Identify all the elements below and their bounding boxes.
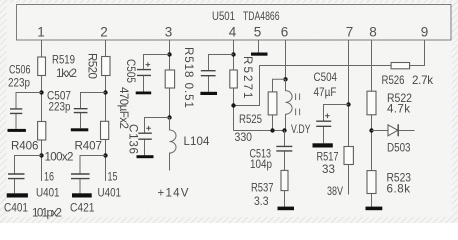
svg-text:U401: U401 bbox=[98, 186, 122, 199]
svg-text:R517: R517 bbox=[317, 150, 339, 163]
capacitor C506 wire branch bbox=[16, 93, 42, 129]
wire pin6 column bbox=[285, 40, 287, 91]
diode D503 cathode wire bbox=[398, 130, 414, 132]
svg-text:4: 4 bbox=[229, 24, 237, 39]
resistor R523 body bbox=[367, 171, 376, 194]
svg-text:33: 33 bbox=[322, 163, 335, 176]
node junction yoke bottom bbox=[282, 128, 286, 132]
svg-text:R520: R520 bbox=[85, 53, 98, 79]
svg-text:5: 5 bbox=[254, 24, 262, 39]
node junction pin1-R519 bbox=[39, 90, 43, 94]
svg-text:2.7k: 2.7k bbox=[412, 74, 433, 87]
svg-text:R525: R525 bbox=[239, 113, 262, 126]
ground bar C512 bbox=[200, 92, 217, 95]
capacitor C401 wire branch bbox=[15, 156, 42, 194]
svg-text:U401: U401 bbox=[36, 186, 60, 199]
capacitor C505 wire branch bbox=[144, 55, 170, 92]
svg-text:8: 8 bbox=[369, 24, 377, 39]
svg-text:6: 6 bbox=[281, 24, 289, 39]
ground bar R523 bbox=[366, 207, 383, 211]
wire pin4 bottom bus to yoke return bbox=[234, 130, 285, 132]
svg-text:V.DY: V.DY bbox=[291, 123, 311, 136]
svg-text:C504: C504 bbox=[314, 71, 338, 84]
svg-text:223p: 223p bbox=[49, 101, 71, 114]
diode D503 anode wire bbox=[372, 130, 389, 132]
svg-text:3: 3 bbox=[165, 24, 173, 39]
ground bar C507 bbox=[71, 128, 89, 131]
svg-text:1: 1 bbox=[37, 24, 45, 39]
svg-text:R537: R537 bbox=[251, 182, 274, 195]
inductor L104 coil bbox=[170, 118, 177, 171]
resistor R525 body bbox=[268, 92, 277, 115]
resistor R522 body bbox=[367, 91, 376, 115]
capacitor C421 plates bbox=[71, 174, 90, 179]
node junction R406 bottom bbox=[39, 153, 43, 157]
svg-text:38V: 38V bbox=[327, 185, 343, 198]
svg-text:104p: 104p bbox=[250, 158, 272, 171]
resistor R407 body bbox=[101, 121, 109, 139]
capacitor C136 wire branch bbox=[145, 118, 170, 156]
capacitor C513 wire stem bbox=[284, 131, 286, 171]
svg-text:47µF: 47µF bbox=[314, 86, 337, 99]
capacitor C136 plates bbox=[138, 133, 152, 139]
svg-text:6.8k: 6.8k bbox=[387, 183, 411, 196]
svg-text:7: 7 bbox=[346, 24, 354, 39]
node junction R407 bottom bbox=[103, 153, 107, 157]
wire pin7 column bbox=[348, 40, 350, 147]
ground bar C506 bbox=[8, 129, 26, 132]
svg-text:C136: C136 bbox=[127, 124, 140, 154]
border hatch top bbox=[0, 0, 458, 3]
ground bar C136 bbox=[137, 155, 154, 158]
resistor R518 body bbox=[165, 70, 174, 88]
svg-text:D503: D503 bbox=[387, 142, 411, 155]
node junction pin8 diode bbox=[369, 128, 373, 132]
svg-text:R518 0.51: R518 0.51 bbox=[182, 47, 195, 108]
wire pin2 column bbox=[105, 40, 107, 181]
wire pin3 column bbox=[169, 40, 171, 118]
svg-text:R407: R407 bbox=[75, 139, 103, 152]
border hatch right bbox=[452, 0, 458, 223]
node junction pin2-R520 bbox=[103, 90, 107, 94]
ground bar pin5 bbox=[251, 53, 268, 56]
capacitor C401 plates bbox=[8, 174, 25, 179]
svg-text:L104: L104 bbox=[184, 135, 211, 148]
capacitor C507 plates bbox=[74, 109, 88, 113]
svg-text:1: 1 bbox=[241, 92, 254, 98]
resistor R519 body bbox=[38, 57, 46, 76]
svg-text:R526: R526 bbox=[382, 74, 405, 87]
wire pin9 to R526 to corner down to pin4 node bbox=[234, 40, 425, 106]
IC U501 box bbox=[17, 5, 452, 41]
wire pin4 column bbox=[233, 40, 235, 131]
svg-text:9: 9 bbox=[421, 24, 429, 39]
resistor R526 body bbox=[391, 63, 410, 69]
border hatch bottom bbox=[0, 217, 458, 223]
svg-text:223p: 223p bbox=[8, 77, 30, 90]
svg-text:U501: U501 bbox=[212, 10, 235, 23]
transformer V.DY yoke winding bbox=[286, 79, 293, 130]
diode D503 cathode bar bbox=[397, 124, 399, 136]
svg-text:C505: C505 bbox=[124, 59, 137, 83]
capacitor C136 plus sign bbox=[146, 126, 151, 131]
svg-text:C421: C421 bbox=[70, 201, 95, 214]
svg-text:3.3: 3.3 bbox=[254, 195, 269, 208]
node junction pin4 top bbox=[231, 52, 235, 56]
resistor R520 body bbox=[102, 57, 110, 76]
node junction pin4 lower bbox=[231, 103, 235, 107]
resistor R523 bottom stem bbox=[371, 194, 373, 207]
resistor R537 body bbox=[281, 170, 288, 190]
resistor R525 wire branch bbox=[273, 79, 286, 130]
diode D503 triangle bbox=[388, 125, 398, 136]
resistor R517 bottom stem to 38V bbox=[348, 165, 350, 195]
capacitor C507 wire branch bbox=[81, 93, 106, 129]
svg-text:R519: R519 bbox=[52, 54, 75, 67]
svg-text:16: 16 bbox=[44, 171, 54, 184]
capacitor C512 plates bbox=[201, 71, 216, 76]
ground bar R537 bbox=[278, 207, 295, 211]
capacitor C504 plus sign bbox=[325, 114, 330, 119]
transformer V.DY core marks bbox=[296, 94, 300, 116]
node junction yoke top pin6 bbox=[283, 77, 287, 81]
node junction pin3 lower bbox=[167, 115, 171, 119]
capacitor C504 wire branch bbox=[324, 105, 349, 144]
border hatch left bbox=[0, 0, 7, 223]
wire pin8 column bbox=[371, 40, 373, 171]
ground bar C421 bbox=[72, 193, 92, 197]
capacitor C505 plates bbox=[137, 70, 151, 76]
ground bar C505 bbox=[136, 92, 152, 95]
capacitor C421 wire branch bbox=[80, 156, 106, 194]
node junction pin7 bbox=[346, 102, 350, 106]
svg-text:100x2: 100x2 bbox=[45, 151, 74, 164]
wire pin5 stub bbox=[258, 40, 260, 53]
svg-text:TDA4866: TDA4866 bbox=[243, 10, 280, 23]
svg-text:C506: C506 bbox=[9, 64, 31, 77]
wire pin1 column bbox=[41, 40, 43, 181]
capacitor C513 plates bbox=[276, 146, 292, 151]
capacitor C512 wire branch bbox=[209, 55, 234, 92]
ground bar C401 bbox=[7, 193, 28, 197]
svg-text:+14V: +14V bbox=[158, 186, 189, 199]
svg-text:330: 330 bbox=[235, 131, 253, 144]
capacitor C505 plus sign bbox=[146, 62, 151, 67]
resistor R537 bottom stem bbox=[284, 191, 286, 207]
svg-text:4.7k: 4.7k bbox=[387, 103, 410, 116]
svg-text:1kx2: 1kx2 bbox=[56, 67, 77, 80]
resistor R527 body bbox=[230, 70, 238, 88]
svg-text:R406: R406 bbox=[11, 139, 39, 152]
node junction R525 bottom bbox=[270, 128, 274, 132]
resistor R406 body bbox=[38, 122, 46, 141]
capacitor C506 plates bbox=[10, 109, 22, 114]
svg-text:101px2: 101px2 bbox=[32, 206, 62, 219]
node junction pin3 top bbox=[167, 52, 171, 56]
svg-text:C401: C401 bbox=[4, 201, 28, 214]
svg-text:470µFx2: 470µFx2 bbox=[117, 87, 130, 129]
svg-text:2: 2 bbox=[100, 24, 108, 39]
capacitor C504 plates bbox=[316, 121, 331, 126]
resistor R517 body bbox=[344, 147, 353, 165]
ground bar C504 bbox=[313, 143, 333, 147]
svg-text:15: 15 bbox=[108, 171, 118, 184]
